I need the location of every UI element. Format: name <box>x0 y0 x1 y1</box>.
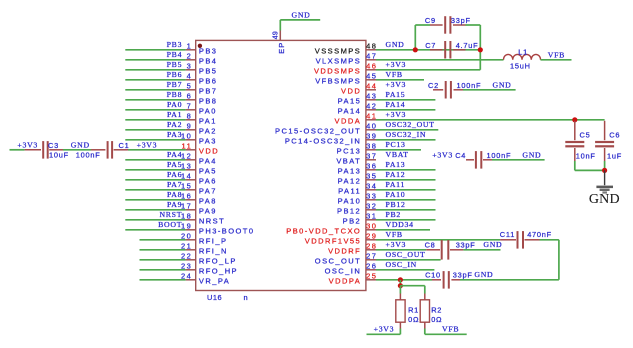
svg-text:21: 21 <box>181 242 192 251</box>
svg-text:R2: R2 <box>431 306 442 315</box>
svg-text:4.7uF: 4.7uF <box>456 41 479 50</box>
svg-text:PA6: PA6 <box>167 170 182 179</box>
svg-text:PA10: PA10 <box>386 190 406 199</box>
svg-text:PB7: PB7 <box>167 80 183 89</box>
svg-text:PB8: PB8 <box>199 97 218 106</box>
svg-text:31: 31 <box>366 212 377 221</box>
svg-text:OSC_IN: OSC_IN <box>386 260 418 269</box>
svg-text:PB3: PB3 <box>199 47 218 56</box>
svg-text:PC14-OSC32_IN: PC14-OSC32_IN <box>285 137 361 146</box>
svg-text:32: 32 <box>366 202 377 211</box>
svg-text:RFI_P: RFI_P <box>199 237 228 246</box>
svg-text:4: 4 <box>187 72 193 81</box>
svg-text:PA0: PA0 <box>199 107 217 116</box>
svg-text:PB2: PB2 <box>386 210 402 219</box>
svg-text:+3V3: +3V3 <box>432 151 453 160</box>
svg-text:VBAT: VBAT <box>336 157 361 166</box>
svg-text:18: 18 <box>181 212 192 221</box>
svg-text:PA2: PA2 <box>199 127 217 136</box>
svg-text:C11: C11 <box>500 230 515 239</box>
svg-text:VR_PA: VR_PA <box>199 277 230 286</box>
svg-text:19: 19 <box>181 222 192 231</box>
svg-text:+3V3: +3V3 <box>137 141 158 150</box>
svg-text:VFB: VFB <box>442 325 459 334</box>
svg-text:38: 38 <box>366 142 377 151</box>
svg-text:1: 1 <box>187 42 193 51</box>
svg-text:PB4: PB4 <box>199 57 218 66</box>
svg-text:C1: C1 <box>119 141 130 150</box>
svg-text:PA14: PA14 <box>338 107 362 116</box>
svg-text:33: 33 <box>366 192 377 201</box>
svg-text:PB2: PB2 <box>343 217 362 226</box>
svg-text:NRST: NRST <box>199 217 225 226</box>
svg-text:100nF: 100nF <box>487 151 512 160</box>
svg-text:13: 13 <box>181 162 192 171</box>
svg-text:GND: GND <box>483 240 502 249</box>
svg-text:PA6: PA6 <box>199 177 217 186</box>
svg-text:+3V3: +3V3 <box>386 60 407 69</box>
svg-text:25: 25 <box>366 272 377 281</box>
svg-text:GND: GND <box>71 141 90 150</box>
svg-text:PA7: PA7 <box>167 180 182 189</box>
svg-text:VDDRF1V55: VDDRF1V55 <box>305 237 361 246</box>
svg-text:GND: GND <box>589 192 620 207</box>
svg-text:PB6: PB6 <box>199 77 218 86</box>
svg-text:48: 48 <box>366 42 377 51</box>
svg-text:PA12: PA12 <box>338 177 362 186</box>
svg-text:PA14: PA14 <box>386 100 406 109</box>
svg-text:+3V3: +3V3 <box>374 325 395 334</box>
svg-text:1uF: 1uF <box>607 152 622 161</box>
svg-text:37: 37 <box>366 152 377 161</box>
svg-text:33pF: 33pF <box>453 271 473 280</box>
svg-text:470nF: 470nF <box>527 230 552 239</box>
svg-text:VDDRF: VDDRF <box>328 247 361 256</box>
svg-text:VLXSMPS: VLXSMPS <box>316 57 362 66</box>
svg-text:L1: L1 <box>518 48 528 57</box>
svg-text:VSSSMPS: VSSSMPS <box>315 47 361 56</box>
svg-text:26: 26 <box>366 262 377 271</box>
svg-text:PA9: PA9 <box>199 207 217 216</box>
svg-text:OSC_IN: OSC_IN <box>325 267 362 276</box>
svg-text:PA4: PA4 <box>199 157 217 166</box>
svg-text:15: 15 <box>181 182 192 191</box>
svg-text:C10: C10 <box>425 271 441 280</box>
svg-text:C9: C9 <box>425 16 436 25</box>
svg-text:PA13: PA13 <box>338 167 362 176</box>
svg-text:VDD: VDD <box>199 147 219 156</box>
svg-text:22: 22 <box>181 252 192 261</box>
svg-text:PB0-VDD_TCXO: PB0-VDD_TCXO <box>286 227 361 236</box>
svg-text:46: 46 <box>366 62 377 71</box>
svg-text:RFO_LP: RFO_LP <box>199 257 237 266</box>
svg-text:PA8: PA8 <box>167 190 182 199</box>
svg-text:2: 2 <box>187 52 193 61</box>
svg-text:GND: GND <box>493 81 512 90</box>
svg-text:VBAT: VBAT <box>386 150 409 159</box>
svg-text:OSC_OUT: OSC_OUT <box>315 257 361 266</box>
svg-text:C2: C2 <box>428 81 439 90</box>
svg-text:RFO_HP: RFO_HP <box>199 267 238 276</box>
svg-text:VFB: VFB <box>548 51 565 60</box>
svg-text:PA1: PA1 <box>199 117 217 126</box>
svg-text:VFBSMPS: VFBSMPS <box>315 77 361 86</box>
svg-text:3: 3 <box>187 62 193 71</box>
svg-text:PA3: PA3 <box>167 130 182 139</box>
svg-text:0Ω: 0Ω <box>408 315 419 324</box>
svg-text:PA3: PA3 <box>199 137 217 146</box>
svg-text:VFB: VFB <box>386 230 403 239</box>
svg-text:7: 7 <box>187 102 193 111</box>
svg-text:PB7: PB7 <box>199 87 218 96</box>
svg-text:GND: GND <box>522 151 541 160</box>
svg-text:10nF: 10nF <box>576 152 596 161</box>
svg-text:C3: C3 <box>48 141 59 150</box>
svg-text:23: 23 <box>181 262 192 271</box>
svg-text:VDDPA: VDDPA <box>329 277 362 286</box>
svg-text:27: 27 <box>366 252 377 261</box>
svg-text:PA7: PA7 <box>199 187 217 196</box>
svg-text:PA12: PA12 <box>386 170 406 179</box>
svg-text:6: 6 <box>187 92 193 101</box>
svg-text:35: 35 <box>366 172 377 181</box>
svg-text:PA5: PA5 <box>167 160 182 169</box>
svg-text:VDDA: VDDA <box>335 117 362 126</box>
svg-text:PB3: PB3 <box>167 40 183 49</box>
svg-text:NRST: NRST <box>159 210 182 219</box>
svg-text:VDDSMPS: VDDSMPS <box>314 67 361 76</box>
svg-text:100nF: 100nF <box>457 81 482 90</box>
svg-text:OSC32_IN: OSC32_IN <box>386 130 427 139</box>
svg-text:29: 29 <box>366 232 377 241</box>
svg-text:40: 40 <box>366 122 377 131</box>
svg-text:GND: GND <box>292 11 311 20</box>
svg-text:PB12: PB12 <box>337 207 361 216</box>
svg-text:41: 41 <box>366 112 377 121</box>
svg-text:PA2: PA2 <box>167 120 182 129</box>
svg-text:39: 39 <box>366 132 377 141</box>
svg-text:42: 42 <box>366 102 377 111</box>
svg-text:PA10: PA10 <box>338 197 362 206</box>
svg-text:PA8: PA8 <box>199 197 217 206</box>
svg-text:PA0: PA0 <box>167 100 182 109</box>
svg-text:PC13: PC13 <box>337 147 362 156</box>
svg-text:PB6: PB6 <box>167 70 183 79</box>
svg-text:PB12: PB12 <box>386 200 406 209</box>
svg-text:14: 14 <box>181 172 192 181</box>
svg-text:36: 36 <box>366 162 377 171</box>
svg-text:33pF: 33pF <box>451 16 471 25</box>
svg-text:43: 43 <box>366 92 377 101</box>
svg-text:15uH: 15uH <box>510 62 531 71</box>
svg-text:PH3-BOOT0: PH3-BOOT0 <box>199 227 255 236</box>
svg-text:PA4: PA4 <box>167 150 182 159</box>
svg-text:n: n <box>244 293 249 302</box>
svg-text:R1: R1 <box>408 306 419 315</box>
svg-text:33pF: 33pF <box>456 241 476 250</box>
svg-text:OSC32_OUT: OSC32_OUT <box>386 120 435 129</box>
svg-text:PA5: PA5 <box>199 167 217 176</box>
svg-text:RFI_N: RFI_N <box>199 247 228 256</box>
svg-text:PA15: PA15 <box>338 97 362 106</box>
svg-text:100nF: 100nF <box>76 151 101 160</box>
svg-text:VDD: VDD <box>341 87 361 96</box>
svg-text:8: 8 <box>187 112 193 121</box>
svg-text:10uF: 10uF <box>49 151 69 160</box>
svg-text:C4: C4 <box>455 151 466 160</box>
svg-text:PC13: PC13 <box>386 140 406 149</box>
svg-text:VFB: VFB <box>386 70 403 79</box>
svg-text:0Ω: 0Ω <box>431 315 442 324</box>
svg-text:+3V3: +3V3 <box>17 141 38 150</box>
svg-text:+3V3: +3V3 <box>386 110 407 119</box>
svg-text:BOOT: BOOT <box>158 220 182 229</box>
svg-text:PA1: PA1 <box>167 110 182 119</box>
svg-text:C8: C8 <box>425 241 436 250</box>
svg-text:49: 49 <box>273 31 280 39</box>
svg-text:+3V3: +3V3 <box>386 240 407 249</box>
svg-text:PB4: PB4 <box>167 50 183 59</box>
svg-text:PB8: PB8 <box>167 90 183 99</box>
svg-text:17: 17 <box>181 202 192 211</box>
svg-text:34: 34 <box>366 182 377 191</box>
svg-text:30: 30 <box>366 222 377 231</box>
svg-text:10: 10 <box>181 132 192 141</box>
svg-text:PA11: PA11 <box>386 180 406 189</box>
svg-text:GND: GND <box>386 40 405 49</box>
svg-text:GND: GND <box>474 270 493 279</box>
svg-text:PA13: PA13 <box>386 160 406 169</box>
svg-text:C6: C6 <box>609 131 620 140</box>
svg-text:VDD34: VDD34 <box>386 220 414 229</box>
svg-text:EP: EP <box>277 42 286 54</box>
svg-text:24: 24 <box>181 272 192 281</box>
svg-text:U16: U16 <box>207 293 222 302</box>
svg-text:47: 47 <box>366 52 377 61</box>
svg-text:16: 16 <box>181 192 192 201</box>
svg-text:+3V3: +3V3 <box>386 80 407 89</box>
svg-text:C5: C5 <box>580 131 591 140</box>
svg-text:PB5: PB5 <box>199 67 218 76</box>
svg-text:OSC_OUT: OSC_OUT <box>386 250 426 259</box>
svg-text:PC15-OSC32_OUT: PC15-OSC32_OUT <box>275 127 361 136</box>
svg-text:44: 44 <box>366 82 377 91</box>
svg-text:20: 20 <box>181 232 192 241</box>
svg-text:12: 12 <box>181 152 192 161</box>
svg-text:9: 9 <box>187 122 193 131</box>
svg-text:PA11: PA11 <box>338 187 361 196</box>
svg-text:28: 28 <box>366 242 377 251</box>
svg-text:PA15: PA15 <box>386 90 406 99</box>
svg-text:5: 5 <box>187 82 193 91</box>
svg-text:PA9: PA9 <box>167 200 182 209</box>
svg-text:45: 45 <box>366 72 377 81</box>
svg-text:C7: C7 <box>425 41 436 50</box>
svg-text:PB5: PB5 <box>167 60 183 69</box>
